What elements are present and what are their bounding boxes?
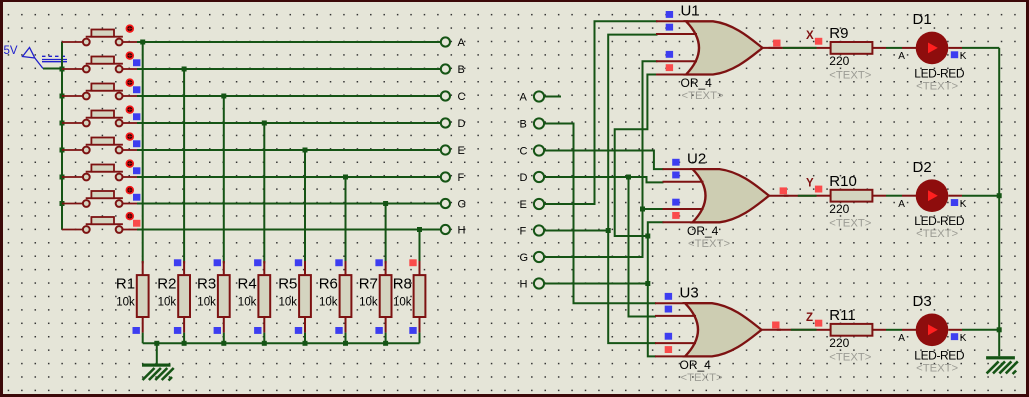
wire net F to U3 pin3 <box>608 231 656 344</box>
wire row A down to R1 <box>142 42 144 263</box>
wire net H to U1 pin4 <box>615 75 658 237</box>
logic state square R5 top <box>295 259 302 266</box>
wire Y gate output to R <box>784 195 817 197</box>
svg-text:H: H <box>520 278 528 290</box>
wire Z gate output to R <box>777 329 817 331</box>
junction row H to R8 <box>417 227 422 232</box>
svg-text:LED-RED: LED-RED <box>914 66 965 80</box>
svg-text:5V: 5V <box>4 45 18 57</box>
wire LED cathode <box>948 329 962 331</box>
wire net B to U3 pin1 <box>545 124 656 304</box>
logic state square R4 top <box>254 259 261 266</box>
wire row D buttons to terminal <box>137 122 440 124</box>
wire supply bus <box>61 42 63 230</box>
logic state square U1 input <box>666 11 673 18</box>
svg-text:OR_4: OR_4 <box>687 224 719 238</box>
push button 5 (row E) <box>62 133 137 153</box>
terminal F (left circuit) <box>441 172 450 181</box>
terminal G (gate inputs) <box>534 252 544 262</box>
logic state square U2 input <box>672 212 679 219</box>
push button 6 (row F) <box>62 160 137 180</box>
svg-text:D3: D3 <box>913 293 932 310</box>
LED D2 LED-RED <box>916 179 949 212</box>
resistor R11 220 <box>817 307 887 364</box>
wire X gate output to R <box>769 47 817 49</box>
push button 4 (row D) <box>62 106 137 126</box>
terminal G (left circuit) <box>441 199 450 208</box>
svg-text:R10: R10 <box>829 173 857 190</box>
wire 5V to bus <box>43 68 62 70</box>
svg-text:<TEXT>: <TEXT> <box>916 362 958 374</box>
junction row F to R6 <box>343 175 348 180</box>
junction cathode bus Y <box>997 193 1002 198</box>
resistor R4 10k <box>238 261 271 333</box>
junction ground bus <box>383 341 388 346</box>
junction row E to R5 <box>303 148 308 153</box>
svg-text:<TEXT>: <TEXT> <box>688 238 730 250</box>
logic state square U1 output <box>773 40 780 47</box>
wire R8 to ground bus <box>419 333 421 344</box>
junction bus row E <box>60 148 65 153</box>
wire LED cathode <box>948 47 962 49</box>
svg-text:<TEXT>: <TEXT> <box>829 218 871 230</box>
wire row E down to R5 <box>304 150 306 263</box>
svg-text:A: A <box>898 51 905 62</box>
wire R7 to ground bus <box>385 333 387 344</box>
resistor R1 10k <box>116 261 149 333</box>
logic state square R2 bottom <box>174 327 181 334</box>
wire R1 to ground bus <box>142 333 144 344</box>
logic state square U2 output <box>780 187 787 194</box>
wire row B buttons to terminal <box>137 68 440 70</box>
push button 8 (row H) <box>62 213 137 233</box>
wire R to LED anode <box>886 329 902 331</box>
svg-text:<TEXT>: <TEXT> <box>681 372 723 384</box>
wire net G to U2 pin3 <box>643 208 664 210</box>
wire net E to U1 pin1 <box>545 21 658 204</box>
svg-text:A: A <box>520 91 528 103</box>
svg-text:Z: Z <box>806 312 813 324</box>
logic state square row C (low) <box>133 86 140 93</box>
logic state square R8 top <box>409 259 416 266</box>
logic state square X at resistor <box>815 38 822 45</box>
logic state square U1 input <box>666 64 673 71</box>
svg-text:10k: 10k <box>359 297 378 309</box>
op-amp U3 (OR_4 gate) <box>655 303 781 356</box>
wire cathode bus <box>998 48 1000 356</box>
logic state square U2 input <box>672 159 679 166</box>
junction net G <box>640 207 645 212</box>
wire R6 to ground bus <box>345 333 347 344</box>
svg-text:D: D <box>458 118 466 130</box>
svg-text:D: D <box>520 172 528 184</box>
junction row A to R1 <box>140 40 145 45</box>
resistor R10 220 <box>817 173 887 230</box>
junction ground bus <box>262 341 267 346</box>
svg-text:E: E <box>458 145 465 157</box>
logic state square U3 input <box>665 306 672 313</box>
junction ground stem <box>154 341 159 346</box>
wire row H buttons to terminal <box>137 229 440 231</box>
svg-text:220: 220 <box>829 54 849 68</box>
svg-text:10k: 10k <box>393 297 412 309</box>
junction net F <box>606 228 611 233</box>
logic state square U3 output <box>772 322 779 329</box>
wire row C down to R3 <box>223 96 225 263</box>
logic state square D3 cathode <box>951 333 958 340</box>
logic state square R4 bottom <box>254 327 261 334</box>
terminal D (gate inputs) <box>534 172 544 182</box>
terminal A (gate inputs) <box>534 91 544 101</box>
terminal C (left circuit) <box>441 91 450 100</box>
junction bus row D <box>60 121 65 126</box>
wire row D down to R4 <box>263 123 265 263</box>
wire row G down to R7 <box>385 204 387 264</box>
svg-text:10k: 10k <box>116 297 135 309</box>
junction row B to R2 <box>182 67 187 72</box>
svg-text:K: K <box>960 51 967 62</box>
LED D3 LED-RED <box>916 314 949 347</box>
ground (right) <box>986 356 1018 374</box>
svg-text:R11: R11 <box>829 307 855 324</box>
logic state square R5 bottom <box>295 327 302 334</box>
wire net C to U2 pin1 <box>545 151 664 170</box>
svg-text:F: F <box>520 225 527 237</box>
logic state square row D (low) <box>133 113 140 120</box>
svg-text:220: 220 <box>829 202 849 216</box>
wire ground bus <box>143 342 420 344</box>
wire row E buttons to terminal <box>137 149 440 151</box>
svg-text:<TEXT>: <TEXT> <box>916 228 958 240</box>
push button 3 (row C) <box>62 79 137 99</box>
svg-text:R7: R7 <box>359 275 378 292</box>
logic state square R7 bottom <box>375 327 382 334</box>
svg-text:<TEXT>: <TEXT> <box>829 352 871 364</box>
logic state square R8 bottom <box>409 327 416 334</box>
svg-text:R2: R2 <box>157 275 176 292</box>
terminal H (gate inputs) <box>534 278 544 288</box>
svg-text:10k: 10k <box>197 297 216 309</box>
svg-text:X: X <box>806 30 814 42</box>
svg-text:C: C <box>520 145 528 157</box>
svg-text:<TEXT>: <TEXT> <box>916 80 958 92</box>
svg-text:G: G <box>520 252 529 264</box>
svg-text:U2: U2 <box>687 151 706 168</box>
svg-text:LED-RED: LED-RED <box>914 214 965 228</box>
logic state square U3 input <box>665 293 672 300</box>
junction ground bus <box>221 341 226 346</box>
wire R to LED anode <box>886 47 902 49</box>
junction row G to R7 <box>383 201 388 206</box>
ground (left) <box>142 364 174 381</box>
logic state square Y at resistor <box>815 186 822 193</box>
wire LED cathode <box>948 195 962 197</box>
wire net G riser <box>545 61 658 257</box>
op-amp U2 (OR_4 gate) <box>663 169 789 222</box>
wire row F buttons to terminal <box>137 176 440 178</box>
wire net H down to U3 pin4 <box>648 284 656 357</box>
svg-text:10k: 10k <box>279 297 298 309</box>
logic state square R6 top <box>335 259 342 266</box>
wire row G buttons to terminal <box>137 203 440 205</box>
svg-text:<TEXT>: <TEXT> <box>682 90 724 102</box>
svg-text:OR_4: OR_4 <box>680 358 712 372</box>
logic state square U1 input <box>666 51 673 58</box>
junction net H mid <box>645 234 650 239</box>
push button 2 (row B) <box>62 52 137 72</box>
svg-text:U1: U1 <box>681 3 700 20</box>
svg-text:R6: R6 <box>319 275 338 292</box>
svg-text:D1: D1 <box>913 11 932 28</box>
logic state square row G (low) <box>133 194 140 201</box>
terminal D (left circuit) <box>441 118 450 127</box>
terminal E (left circuit) <box>441 145 450 154</box>
svg-text:B: B <box>458 64 465 76</box>
svg-text:F: F <box>458 172 465 184</box>
svg-text:G: G <box>458 199 467 211</box>
logic state square row H (high) <box>133 220 140 227</box>
resistor R8 10k <box>393 261 426 333</box>
push button 7 (row G) <box>62 187 137 207</box>
svg-text:U3: U3 <box>680 285 699 302</box>
wire row H down to R8 <box>419 230 421 264</box>
junction bus row B <box>60 67 65 72</box>
svg-text:C: C <box>458 91 466 103</box>
wire net A stub <box>545 96 561 98</box>
terminal F (gate inputs) <box>534 225 544 235</box>
junction row C to R3 <box>221 94 226 99</box>
svg-text:A: A <box>458 37 466 49</box>
svg-text:K: K <box>960 199 967 210</box>
power source 5V <box>4 45 68 69</box>
logic state square R7 top <box>375 259 382 266</box>
wire net F to U1 pin2 <box>608 35 657 231</box>
wire R2 to ground bus <box>183 333 185 344</box>
wire net D branch to U3 pin2 <box>629 177 657 317</box>
resistor R5 10k <box>278 261 311 333</box>
logic state square U3 input <box>665 333 672 340</box>
svg-text:K: K <box>960 333 967 344</box>
svg-text:<TEXT>: <TEXT> <box>829 70 871 82</box>
push button 1 (row A) <box>62 25 137 45</box>
terminal A (left circuit) <box>441 37 450 46</box>
terminal H (left circuit) <box>441 225 450 234</box>
svg-text:H: H <box>458 225 466 237</box>
wire row C buttons to terminal <box>137 95 440 97</box>
svg-text:OR_4: OR_4 <box>681 76 713 90</box>
terminal C (gate inputs) <box>534 145 544 155</box>
svg-text:R5: R5 <box>278 275 297 292</box>
logic state square U2 input <box>672 199 679 206</box>
wire ground stem <box>156 343 158 363</box>
svg-text:A: A <box>898 199 905 210</box>
svg-text:R3: R3 <box>197 275 216 292</box>
logic state square row F (low) <box>133 167 140 174</box>
junction bus row F <box>60 175 65 180</box>
logic state square R6 bottom <box>335 327 342 334</box>
wire row B down to R2 <box>183 69 185 263</box>
junction cathode bus Z <box>997 327 1002 332</box>
junction ground bus <box>182 341 187 346</box>
svg-text:R1: R1 <box>116 275 135 292</box>
logic state square row E (low) <box>133 140 140 147</box>
logic state square R3 bottom <box>214 327 221 334</box>
wire R4 to ground bus <box>263 333 265 344</box>
logic state square D2 cathode <box>951 199 958 206</box>
svg-text:D2: D2 <box>913 159 932 176</box>
junction row D to R4 <box>262 121 267 126</box>
op-amp U1 (OR_4 gate) <box>656 21 782 74</box>
svg-text:B: B <box>520 118 527 130</box>
svg-text:10k: 10k <box>158 297 177 309</box>
svg-text:R8: R8 <box>393 275 412 292</box>
svg-text:R9: R9 <box>829 25 848 42</box>
LED D1 LED-RED <box>916 32 949 65</box>
junction net H row <box>645 281 650 286</box>
wire row A buttons to terminal <box>137 41 440 43</box>
svg-text:10k: 10k <box>319 297 338 309</box>
logic state square row B (low) <box>133 59 140 66</box>
terminal E (gate inputs) <box>534 199 544 209</box>
terminal B (left circuit) <box>441 64 450 73</box>
svg-text:220: 220 <box>829 336 849 350</box>
wire net D to U2 pin2 <box>545 177 664 182</box>
junction ground bus <box>343 341 348 346</box>
junction net D <box>626 175 631 180</box>
junction ground bus <box>303 341 308 346</box>
logic state square U3 input <box>665 346 672 353</box>
resistor R2 10k <box>157 261 190 333</box>
wire row F down to R6 <box>345 177 347 263</box>
svg-text:A: A <box>898 333 905 344</box>
wire net H row <box>545 283 648 285</box>
logic state square U1 input <box>666 24 673 31</box>
logic state square R3 top <box>214 259 221 266</box>
logic state square D1 cathode <box>951 51 958 58</box>
resistor R9 220 <box>817 25 887 82</box>
svg-text:10k: 10k <box>238 297 257 309</box>
wire R3 to ground bus <box>223 333 225 344</box>
logic state square U2 input <box>672 172 679 179</box>
wire net H up to U2 pin4 <box>648 222 664 283</box>
wire R to LED anode <box>886 195 902 197</box>
junction bus row G <box>60 201 65 206</box>
logic state square R2 top <box>174 259 181 266</box>
wire R5 to ground bus <box>304 333 306 344</box>
svg-text:Y: Y <box>806 178 814 190</box>
logic state square Z at resistor <box>815 320 822 327</box>
wire net F to junction <box>545 230 609 232</box>
resistor R7 10k <box>359 261 392 333</box>
svg-text:E: E <box>520 199 527 211</box>
resistor R3 10k <box>197 261 230 333</box>
svg-text:LED-RED: LED-RED <box>914 348 965 362</box>
svg-text:R4: R4 <box>238 275 257 292</box>
logic state square R1 bottom <box>133 327 140 334</box>
resistor R6 10k <box>319 261 352 333</box>
terminal B (gate inputs) <box>534 118 544 128</box>
junction bus row C <box>60 94 65 99</box>
